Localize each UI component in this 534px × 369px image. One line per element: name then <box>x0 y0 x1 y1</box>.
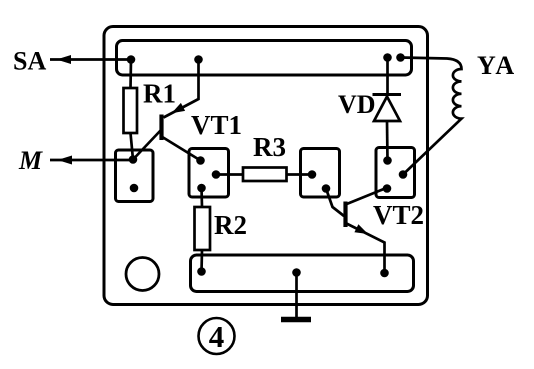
node VD bottom <box>383 156 392 165</box>
pad P4 <box>376 148 415 198</box>
node R2 on bottom rail <box>197 267 206 276</box>
bottom ground rail bar <box>191 255 414 292</box>
wire pad P2 to R3 <box>216 173 243 176</box>
svg-text:VD: VD <box>338 90 376 119</box>
indicator circle (mounting hole) <box>126 258 159 291</box>
node R2 top <box>197 184 206 193</box>
svg-text:R1: R1 <box>143 79 176 109</box>
wire R2 top <box>200 188 203 207</box>
svg-text:VT1: VT1 <box>191 110 242 140</box>
svg-text:M: M <box>18 146 43 175</box>
node ground on bottom rail <box>292 268 301 277</box>
resistor R2 <box>195 207 211 250</box>
diode VD <box>373 58 402 161</box>
top supply rail bar <box>117 41 412 76</box>
wire SA with arrow <box>50 55 131 64</box>
svg-text:SA: SA <box>13 47 46 76</box>
node coil on top rail <box>396 53 405 62</box>
pad P3 <box>301 149 340 198</box>
transistor VT1 (PNP) <box>133 60 201 161</box>
node VT2 base pin <box>322 184 331 193</box>
node VT1 collector <box>196 156 205 165</box>
node coil return <box>399 170 408 179</box>
wire R1 to node M <box>131 133 134 160</box>
node VD on top rail <box>383 53 392 62</box>
pad P2 <box>189 149 229 198</box>
node VT1 emitter on top rail <box>194 55 203 64</box>
resistor R1 <box>124 88 138 133</box>
outer enclosure box <box>104 27 428 305</box>
svg-text:R3: R3 <box>253 132 286 162</box>
relay coil YA <box>401 58 462 175</box>
figure number 4 badge <box>199 318 235 354</box>
svg-text:4: 4 <box>209 319 225 354</box>
ground symbol <box>281 273 311 320</box>
wire R2 bottom to rail <box>200 250 203 272</box>
node VT2 emitter on bottom rail <box>380 269 389 278</box>
wire pad P3 to VT2 base <box>326 189 344 217</box>
wire top rail to R1 <box>129 60 132 89</box>
transistor VT2 (NPN) <box>346 189 386 274</box>
wire R3 to pad P3 <box>287 173 313 176</box>
svg-text:YA: YA <box>477 51 516 80</box>
wire M with arrow <box>50 156 133 165</box>
resistor R3 <box>243 168 287 182</box>
node VT2 collector <box>383 184 392 193</box>
pad P1 (M terminal pad) <box>116 150 154 202</box>
svg-text:R2: R2 <box>214 210 247 240</box>
node M junction <box>129 155 138 164</box>
node SA on top rail <box>127 55 136 64</box>
svg-text:VT2: VT2 <box>373 200 424 230</box>
node R3 left <box>212 170 221 179</box>
node R3 right <box>308 170 317 179</box>
node pad P1 lower pin <box>130 184 139 193</box>
